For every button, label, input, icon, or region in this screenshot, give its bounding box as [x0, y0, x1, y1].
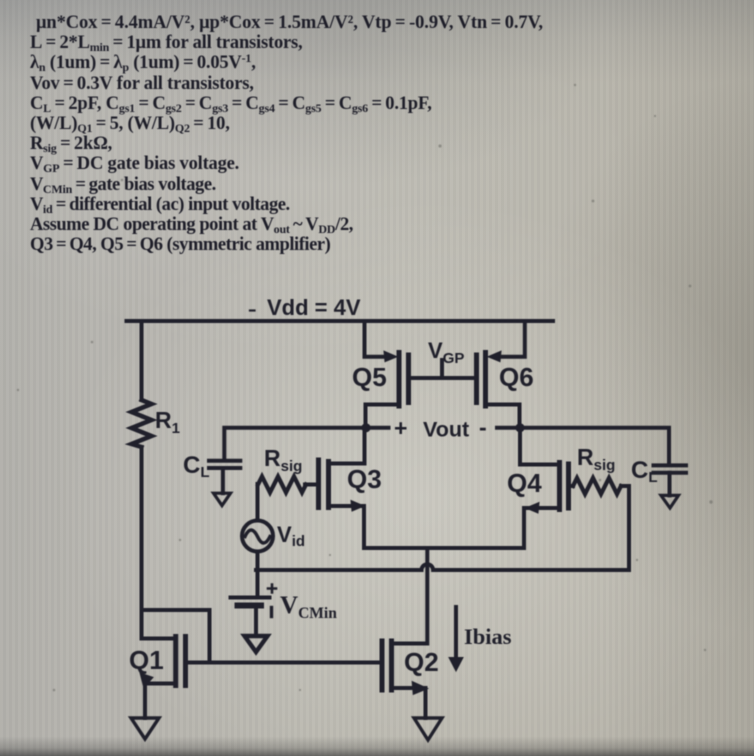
resistor Rsig left	[305, 483, 319, 487]
ground under CL left	[214, 493, 231, 505]
wire R1 bottom to Q1 drain	[140, 447, 144, 639]
node Q1 label	[129, 645, 164, 675]
voltage source Vid	[242, 521, 273, 552]
node Q4 label	[507, 468, 542, 498]
wire Vout left	[224, 428, 388, 459]
transistor Q3	[316, 460, 321, 508]
wire tail sources line	[364, 546, 524, 550]
svg-text:Q2: Q2	[404, 647, 439, 677]
wire Q1-Q2 gate line	[186, 661, 383, 665]
ground under Q2	[414, 718, 442, 740]
node Rsig right label	[577, 444, 615, 474]
node Q6 label	[499, 362, 534, 392]
wire R1 top lead	[140, 321, 144, 400]
wire Q1 gate tie	[142, 610, 210, 663]
svg-text:VCMin: VCMin	[280, 592, 337, 622]
node Q2 label	[404, 647, 439, 677]
svg-text:Q1: Q1	[129, 645, 164, 675]
resistor Rsig right	[569, 484, 574, 488]
wire Q5-Q6 gate line	[409, 376, 477, 380]
svg-text:CL: CL	[183, 452, 210, 481]
transistor Q5	[397, 353, 402, 407]
svg-text:+: +	[394, 415, 407, 441]
current arrow Ibias	[454, 607, 458, 660]
capacitor CL left	[209, 461, 240, 468]
wire Rsig right drop	[627, 486, 631, 570]
wire Q1 drain lead	[142, 637, 176, 641]
resistor R1	[132, 400, 152, 447]
node Rsig left label	[264, 445, 302, 475]
node Q3 label	[347, 464, 382, 494]
battery VCMin	[231, 596, 270, 600]
svg-text:Vid: Vid	[277, 522, 305, 550]
node Vout label	[394, 414, 487, 442]
svg-text:Q3: Q3	[347, 464, 382, 494]
node CL left label	[183, 452, 210, 481]
node CL right label	[631, 457, 658, 486]
node Vid label	[277, 522, 305, 550]
svg-text:Ibias: Ibias	[464, 624, 512, 649]
svg-text:VGP: VGP	[428, 338, 464, 367]
transistor Q2	[380, 641, 385, 690]
node Q5 label	[352, 362, 387, 392]
svg-text:Rsig: Rsig	[577, 444, 615, 474]
node Vdd label	[267, 295, 361, 320]
svg-text:Q6: Q6	[499, 362, 534, 392]
node junction dot left	[361, 423, 370, 432]
svg-text:CL: CL	[631, 457, 658, 486]
svg-text:R1: R1	[155, 407, 180, 437]
transistor Q1	[173, 637, 178, 686]
node junction dot right	[515, 423, 524, 432]
wire VGP stub	[440, 360, 444, 378]
node Ibias label	[464, 624, 512, 649]
transistor Q6	[474, 355, 479, 403]
transistor Q4	[557, 463, 562, 510]
paper specks	[17, 84, 713, 692]
wire dash before Vdd	[250, 309, 255, 311]
node VGP label	[428, 338, 464, 367]
svg-text:Q5: Q5	[352, 362, 387, 392]
wire VCMin bias line with hop	[256, 564, 629, 570]
wire Vout right	[497, 428, 669, 464]
wire Vdd rail	[127, 319, 554, 323]
ground under CL right	[661, 495, 679, 508]
svg-text:Vout: Vout	[423, 418, 469, 442]
svg-text:Vdd = 4V: Vdd = 4V	[267, 295, 361, 320]
ground under Q1	[131, 718, 159, 739]
svg-text:Q4: Q4	[507, 468, 542, 498]
svg-text:-: -	[479, 414, 487, 440]
svg-text:Rsig: Rsig	[264, 445, 302, 475]
node VCMin label	[280, 592, 337, 622]
node R1 label	[155, 407, 180, 437]
capacitor CL right	[654, 465, 687, 472]
ground under VCMin	[245, 636, 268, 652]
